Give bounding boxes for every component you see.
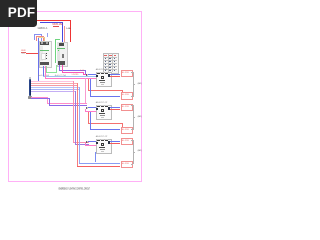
relay unit U3 text strip (100, 149, 106, 150)
riser pink long to group3 (72, 81, 75, 142)
label feeder (21, 50, 25, 52)
brace group2 top tick (131, 104, 133, 107)
wire purple PB1 jog down (48, 98, 51, 105)
brace group3 mid tick (133, 151, 135, 154)
relay R1 switch mark 2 (46, 55, 48, 56)
push button PB1 base (28, 96, 32, 99)
wire magenta junction link (83, 73, 86, 76)
wire purple PB1 lower (31, 97, 49, 100)
wire red overpass v2 (87, 112, 90, 123)
wire loop red right leg (42, 36, 45, 42)
label relay unit U3 (96, 136, 108, 138)
contactor K1 body (57, 42, 68, 67)
terminal block TB1 dot r4c3 (114, 67, 116, 68)
riser purple long to group3 (74, 91, 77, 144)
relay R1 label area (41, 53, 46, 59)
relay unit U3 terminal 1 (97, 139, 100, 141)
relay unit U3 body (96, 139, 113, 154)
label MCB underline (53, 25, 60, 28)
terminal block TB1 row line 5 (103, 68, 117, 70)
brace group3 bottom tick (131, 163, 133, 166)
terminal block TB1 dot r4c2 (109, 67, 111, 68)
label lamp 3a (122, 140, 129, 142)
terminal block TB1 dot r3c2 (109, 64, 111, 65)
terminal block TB1 row line 3 (103, 62, 117, 64)
wire red overpass drop2 (121, 123, 124, 127)
label lamp 1b (122, 94, 129, 96)
wire pink PB1 lower (31, 96, 47, 99)
relay unit U2 center dot (102, 110, 103, 111)
lamp box 2b (121, 127, 133, 134)
wire blue U1 to lamp1a (110, 73, 120, 76)
relay unit U2 terminal 1 (97, 105, 100, 107)
terminal block TB1 dot r5c2 (109, 70, 111, 71)
label relay R1 type (38, 75, 49, 77)
wire N blue from incomer (40, 21, 64, 24)
label relay unit U1 (96, 69, 108, 71)
wire green earth vertical (54, 39, 57, 64)
wire purple bus to junction (59, 69, 86, 72)
lamp box 3b (121, 161, 133, 168)
wire green earth horizontal (55, 38, 60, 41)
relay unit U1 terminal 1 (97, 72, 100, 74)
wire blue U2 to lamp2a (110, 106, 120, 109)
riser pink group1 to group2 (84, 78, 87, 104)
relay R1 upper face (40, 46, 50, 50)
wire blue bus to relay unit U1 (43, 75, 96, 78)
relay R1 switch mark 3 (46, 58, 48, 59)
push button PB1 cap (29, 77, 31, 79)
page border frame (8, 11, 142, 183)
junction arrow group2 (86, 107, 88, 109)
terminal block TB1 red mark 2 (109, 54, 112, 57)
brace group1 mid tick (133, 83, 135, 86)
brace group1 line (132, 72, 135, 96)
terminal block TB1 dot r5c3 (114, 70, 116, 71)
wire salmon 2 from PB1 (31, 84, 77, 87)
wire pink stub into U2 (85, 110, 96, 113)
relay unit U1 lower bar (99, 80, 105, 82)
relay unit U1 terminal 3 (105, 72, 108, 74)
relay R1 side shade (40, 46, 43, 62)
label wire size (80, 70, 84, 72)
wire blue lampline v2 (89, 112, 92, 129)
PDF badge text (3, 0, 40, 27)
wire blue U3 bottom drop (94, 152, 97, 163)
terminal block TB1 row line 4 (103, 65, 117, 67)
wire blue along relay R1 left (37, 38, 40, 82)
relay R1 top screw right (46, 42, 48, 44)
terminal block TB1 dot r2c3 (114, 61, 116, 62)
wire loop blue top (34, 33, 42, 36)
terminal block TB1 row line 2 (103, 59, 117, 61)
relay R1 bottom terminal (40, 62, 48, 66)
contactor K1 switch (62, 54, 64, 59)
label lamp 2b (122, 129, 129, 131)
relay unit U3 terminal 3 (105, 139, 108, 141)
wire purple junction drop (84, 70, 87, 75)
junction arrow group3 (86, 141, 88, 143)
relay R1 top screw left (41, 42, 43, 44)
lamp box 1a (121, 70, 133, 77)
relay unit U2 left lug (96, 108, 98, 110)
wire L red drop to contactor K1 (69, 20, 72, 42)
wire pink stub drop2 (84, 109, 87, 112)
relay unit U1 body (96, 72, 113, 87)
push button PB1 body (29, 79, 32, 96)
wire red long to lamp3b (77, 165, 121, 168)
wire red feeder to relay R1 (26, 52, 39, 55)
relay unit U2 bottom tab (101, 117, 105, 118)
brace group3 top tick (131, 139, 133, 142)
brace group2 bottom tick (131, 128, 133, 131)
wire red overpass drop1 (121, 90, 124, 93)
relay R1 green band (40, 50, 50, 51)
lamp box 3a (121, 138, 133, 145)
terminal block TB1 col line 2 (111, 53, 113, 71)
wire purple group3 horizontal (75, 143, 89, 146)
label relay unit U2 (96, 102, 108, 104)
relay unit U1 text strip (100, 82, 106, 83)
label circuit 3 (138, 150, 142, 152)
wire blue long to lamp3b (79, 162, 120, 165)
wire blue stub into U2 (88, 106, 96, 109)
wire red overpass v1 (87, 79, 90, 90)
wire blue lampline h2 (90, 128, 121, 131)
relay unit U2 terminal 2 (101, 105, 104, 107)
contactor K1 green band (57, 48, 66, 49)
relay R1 top terminal (40, 42, 49, 45)
wire pink stub drop3 (84, 143, 87, 146)
wire pink group3 horizontal (73, 141, 89, 144)
label MCB (53, 23, 63, 26)
wire loop blue right leg (40, 34, 43, 41)
PDF badge background (0, 0, 37, 27)
relay unit U1 bottom tab (101, 84, 105, 85)
terminal block TB1 dot r3c1 (105, 64, 107, 65)
relay unit U3 lower bar (99, 147, 105, 149)
label contactor K1 type (55, 75, 66, 77)
wire loop blue left leg (33, 34, 36, 41)
terminal block TB1 dot r1c2 (109, 58, 111, 59)
wire blue U3 to lamp3a (110, 140, 120, 143)
relay unit U3 terminal 2 (101, 139, 104, 141)
wire loop red top (36, 35, 43, 38)
contactor K1 led (58, 50, 59, 51)
relay unit U3 left lug (96, 142, 98, 144)
label circuit 1 (138, 83, 142, 85)
label feeder volts (21, 54, 25, 55)
wire blue relay R1 drop (42, 66, 45, 77)
relay R1 body (39, 41, 52, 68)
wire pink to group2 (47, 102, 88, 105)
terminal block TB1 row line 1 (103, 56, 117, 58)
wire L red inner drop (63, 26, 66, 43)
wire green earth link left leg (45, 66, 48, 73)
terminal block TB1 dot r1c1 (105, 58, 107, 59)
brace group2 line (132, 105, 135, 129)
wire blue stub into U1 (88, 73, 96, 76)
wire red U3 to lamp3a (110, 142, 120, 145)
wire N blue drop to contactor K1 (61, 22, 64, 43)
wire loop yellow top (38, 36, 45, 39)
terminal block TB1 col line 1 (107, 53, 109, 71)
brace group2 mid tick (133, 116, 135, 119)
riser blue long (78, 87, 81, 164)
relay unit U3 center block (101, 143, 105, 146)
wire green earth link bottom (46, 71, 57, 74)
label L N (72, 74, 78, 76)
wire purple to group2 (49, 104, 88, 107)
relay unit U1 right lug (108, 74, 110, 76)
wire magenta contactor drop (61, 65, 64, 72)
wire red U2 to lamp2a (110, 108, 120, 111)
relay unit U1 center block (101, 76, 105, 79)
wire loop blue stub (46, 33, 49, 37)
label lamp 3b (122, 163, 129, 165)
wire blue lampline v1 (89, 79, 92, 96)
contactor K1 top terminal (59, 43, 65, 46)
label rating (66, 28, 71, 30)
relay unit U2 right lug (108, 107, 110, 109)
relay R1 switch mark 1 (46, 53, 48, 54)
terminal block TB1 red mark 3 (114, 54, 117, 57)
wire green earth link right leg (55, 65, 58, 72)
relay unit U3 right lug (108, 141, 110, 143)
label circuit 2 (138, 116, 142, 118)
wire pink bus to relay unit U1 (45, 77, 96, 80)
wire magenta junction drop (82, 72, 85, 75)
wire red overpass h1 (88, 89, 123, 92)
terminal block TB1 dot r1c3 (114, 58, 116, 59)
brace group1 bottom tick (131, 95, 133, 98)
terminal block TB1 dot r4c1 (105, 67, 107, 68)
wire blue stub into U3 (88, 140, 96, 143)
wire magenta bus to junction (62, 71, 84, 74)
terminal block TB1 dot r2c2 (109, 61, 111, 62)
relay unit U2 terminal 3 (105, 105, 108, 107)
junction arrow group1 (86, 74, 88, 76)
relay unit U1 terminal 2 (101, 72, 104, 74)
relay unit U1 left lug (96, 75, 98, 77)
wire pale pink from PB1 (31, 80, 73, 83)
relay unit U2 text strip (100, 115, 106, 116)
relay unit U1 center dot (102, 77, 103, 78)
contactor K1 bottom terminal (58, 61, 65, 65)
label lamp 2a (122, 106, 129, 108)
wire pink stub into U3 (85, 144, 96, 147)
wire blue lampline h1 (90, 95, 121, 98)
lamp box 1b (121, 92, 133, 99)
wire loop red left leg (35, 36, 38, 41)
wire loop yellow right leg (43, 37, 46, 41)
wire pale blue from PB1 (31, 86, 80, 89)
wire red overpass h2 (88, 122, 123, 125)
terminal block TB1 red mark 1 (104, 54, 107, 57)
terminal block TB1 dot r5c1 (105, 70, 107, 71)
brace group3 line (132, 140, 135, 164)
contactor K1 left shade (57, 42, 60, 65)
wire pink PB1 jog down (46, 97, 49, 104)
wire salmon from PB1 (31, 82, 77, 85)
lamp box 2a (121, 104, 133, 111)
wire red U1 to lamp1a (110, 75, 120, 78)
relay unit U2 body (96, 105, 113, 120)
relay unit U3 center dot (102, 144, 103, 145)
relay unit U2 lower bar (99, 113, 105, 115)
brace group1 top tick (131, 71, 133, 74)
wire pink relay R1 drop (44, 66, 47, 79)
terminal block TB1 body (103, 53, 119, 73)
relay unit U3 bottom tab (101, 151, 105, 152)
label lamp 1a (122, 72, 129, 74)
relay unit U2 center block (101, 109, 105, 112)
label GRDC-1 (38, 27, 48, 30)
label feeder red bar (21, 52, 25, 53)
terminal block TB1 dot r3c3 (114, 64, 116, 65)
wire pale purple from PB1 (31, 90, 75, 93)
wire purple contactor drop (58, 65, 61, 70)
riser red long to lamp3b (76, 83, 79, 167)
terminal block TB1 dot r2c1 (105, 61, 107, 62)
wire pale blue 2 from PB1 (31, 88, 80, 91)
wire L red from incomer (37, 19, 71, 22)
title text (0, 177, 149, 195)
